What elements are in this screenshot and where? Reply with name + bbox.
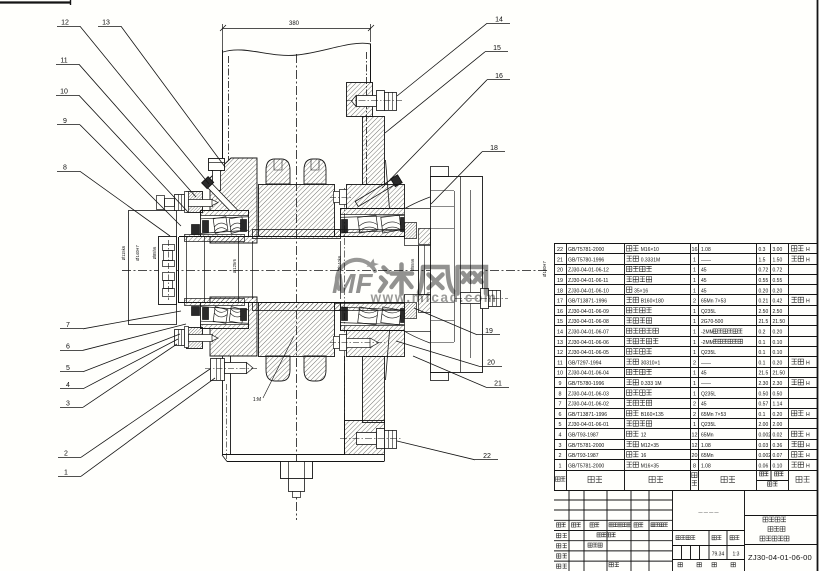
sprocket lower half (section)	[259, 303, 335, 357]
svg-text:10: 10	[60, 89, 68, 96]
title block right: part name	[763, 517, 768, 522]
svg-text:12: 12	[692, 433, 698, 439]
spacer sleeve lower	[253, 303, 341, 311]
svg-text:1: 1	[693, 278, 696, 284]
right flange stem lower (section)	[363, 357, 385, 423]
sheet right border	[817, 0, 819, 571]
svg-text:H: H	[806, 453, 810, 459]
svg-text:0.002: 0.002	[759, 453, 772, 459]
svg-text:21.50: 21.50	[773, 371, 786, 377]
housing bottom plate	[222, 454, 345, 456]
svg-text:ZJ30-04-01-06-03: ZJ30-04-01-06-03	[568, 391, 609, 397]
svg-text:ZJ30-04-01-06-06: ZJ30-04-01-06-06	[568, 340, 609, 346]
svg-text:M16×35: M16×35	[641, 463, 659, 469]
svg-text:21: 21	[557, 257, 563, 263]
svg-text:ZJ30-04-01-06-07: ZJ30-04-01-06-07	[568, 330, 609, 336]
tube right wall	[370, 44, 372, 83]
svg-text:Q235L: Q235L	[701, 422, 716, 428]
svg-text:1: 1	[693, 391, 696, 397]
svg-text:45: 45	[701, 371, 707, 377]
svg-text:0.1: 0.1	[759, 350, 766, 356]
svg-text:——: ——	[701, 257, 711, 263]
svg-text:380: 380	[289, 21, 300, 27]
svg-text:13: 13	[102, 20, 110, 27]
shaft end retaining plate (item 8)	[159, 237, 177, 305]
left bearing housing phantom outline	[129, 211, 177, 325]
mid-right cover bolt	[455, 289, 508, 309]
svg-text:1: 1	[693, 422, 696, 428]
svg-text:Q235L: Q235L	[701, 309, 716, 315]
svg-text:M16×10: M16×10	[641, 247, 659, 253]
svg-text:GB/T5781-2000: GB/T5781-2000	[568, 443, 604, 449]
centerline horizontal	[122, 270, 549, 272]
svg-text:1: 1	[693, 309, 696, 315]
flange cone silhouette curves	[394, 197, 430, 216]
svg-text:3.00: 3.00	[773, 247, 783, 253]
inner ring strip right upper	[335, 230, 419, 237]
svg-text:— — — —: — — — —	[698, 510, 719, 515]
dimension 380 top	[223, 28, 371, 30]
flange bolt lower right	[347, 339, 371, 348]
small stud left upper	[157, 196, 165, 210]
svg-text:2G70-500: 2G70-500	[701, 319, 723, 325]
parts table header	[554, 470, 818, 490]
cap bolt upper	[175, 192, 219, 213]
right flange flare upper (section)	[347, 185, 405, 209]
svg-text:65Mn 7×53: 65Mn 7×53	[701, 299, 726, 305]
svg-text:ZJ30-04-01-06-12: ZJ30-04-01-06-12	[568, 268, 609, 274]
svg-text:45: 45	[701, 268, 707, 274]
svg-text:0.1: 0.1	[759, 340, 766, 346]
svg-text:3: 3	[559, 443, 562, 449]
foot bolt bottom right (item 22)	[340, 429, 402, 449]
svg-text:1:3: 1:3	[733, 552, 740, 558]
plate bolt stack lower	[163, 273, 175, 281]
svg-text:20: 20	[487, 360, 495, 367]
svg-text:1: 1	[693, 381, 696, 387]
svg-text:ZJ30-04-01-06-09: ZJ30-04-01-06-09	[568, 309, 609, 315]
svg-text:9: 9	[63, 118, 67, 125]
svg-text:2.30: 2.30	[759, 381, 769, 387]
svg-text:1.08: 1.08	[701, 247, 711, 253]
svg-text:22: 22	[557, 247, 563, 253]
svg-text:14: 14	[495, 17, 503, 24]
svg-text:0.50: 0.50	[759, 391, 769, 397]
svg-text:21.50: 21.50	[773, 319, 786, 325]
svg-text:GB/T93-1987: GB/T93-1987	[568, 453, 599, 459]
svg-text:2.00: 2.00	[773, 422, 783, 428]
flange bolt circle centerline	[344, 188, 346, 452]
watermark MF logo	[332, 259, 379, 300]
bottom center stud (section)	[281, 462, 313, 498]
svg-text:ZJ30-04-01-06-00: ZJ30-04-01-06-00	[748, 553, 812, 562]
svg-text:1: 1	[693, 340, 696, 346]
svg-text:Q235L: Q235L	[701, 391, 716, 397]
svg-text:0.50: 0.50	[773, 391, 783, 397]
svg-text:——: ——	[701, 381, 711, 387]
svg-text:65Mn: 65Mn	[701, 453, 714, 459]
svg-text:0.1: 0.1	[759, 360, 766, 366]
svg-text:20: 20	[557, 268, 563, 274]
left bearing end cap lower (section)	[187, 328, 203, 349]
housing lower-left wall outer face	[222, 356, 224, 455]
svg-text:Q235L: Q235L	[701, 350, 716, 356]
svg-text:ZJ30-04-01-06-01: ZJ30-04-01-06-01	[568, 422, 609, 428]
svg-text:H: H	[806, 381, 810, 387]
right housing foot (section)	[345, 421, 385, 455]
svg-text:17: 17	[557, 299, 563, 305]
svg-text:GB/T5781-2000: GB/T5781-2000	[568, 247, 604, 253]
svg-text:19: 19	[485, 328, 493, 335]
shaft outline	[179, 236, 418, 238]
sprocket tooth top left	[266, 159, 290, 184]
svg-text:Ø180H7: Ø180H7	[542, 261, 547, 277]
svg-text:16: 16	[557, 309, 563, 315]
svg-text:21: 21	[494, 381, 502, 388]
svg-text:2.50: 2.50	[759, 309, 769, 315]
svg-text:0.72: 0.72	[773, 268, 783, 274]
svg-text:B160×180: B160×180	[641, 299, 664, 305]
title block grid	[554, 490, 818, 571]
svg-text:1: 1	[64, 470, 68, 477]
oblique locating pin (item 12)	[202, 177, 245, 221]
oil seal left upper (item 17)	[192, 225, 200, 235]
title block left labels	[557, 523, 561, 527]
svg-text:0.333 1M: 0.333 1M	[641, 381, 662, 387]
svg-text:2.50: 2.50	[773, 309, 783, 315]
svg-text:45: 45	[701, 402, 707, 408]
right tapered roller bearing upper	[341, 209, 409, 237]
svg-text:5: 5	[559, 422, 562, 428]
spacer sleeve upper	[253, 230, 341, 239]
svg-text:0.20: 0.20	[773, 412, 783, 418]
svg-text:2: 2	[559, 453, 562, 459]
left tapered roller bearing upper	[201, 211, 249, 237]
left tapered roller bearing lower	[201, 303, 249, 329]
svg-text:0.002: 0.002	[759, 433, 772, 439]
svg-text:16: 16	[692, 247, 698, 253]
svg-text:ZJ30-04-01-06-04: ZJ30-04-01-06-04	[568, 371, 609, 377]
centerline vertical	[296, 54, 298, 520]
svg-text:0.3331M: 0.3331M	[641, 257, 660, 263]
svg-text:16: 16	[641, 453, 647, 459]
svg-text:1.08: 1.08	[701, 463, 711, 469]
svg-text:16: 16	[495, 73, 503, 80]
svg-text:0.10: 0.10	[773, 340, 783, 346]
watermark char feng	[419, 267, 455, 293]
watermark char wang	[458, 267, 487, 294]
right flange flare lower (section)	[347, 331, 405, 357]
svg-text:19: 19	[557, 278, 563, 284]
housing box inner walls	[344, 356, 346, 455]
svg-text:45: 45	[701, 288, 707, 294]
flange bolt upper right	[334, 192, 340, 203]
svg-text:2: 2	[693, 299, 696, 305]
svg-text:9: 9	[559, 381, 562, 387]
svg-text:M12×35: M12×35	[641, 443, 659, 449]
svg-text:6: 6	[66, 344, 70, 351]
svg-text:2: 2	[693, 402, 696, 408]
svg-text:12: 12	[692, 443, 698, 449]
svg-text:11: 11	[557, 360, 563, 366]
svg-text:ZJ30-04-01-06-11: ZJ30-04-01-06-11	[568, 278, 609, 284]
inner ring strip upper	[185, 235, 245, 242]
sprocket upper half (section)	[259, 185, 335, 237]
svg-text:ZJ30-04-01-06-02: ZJ30-04-01-06-02	[568, 402, 609, 408]
svg-text:H: H	[806, 360, 810, 366]
svg-text:1: 1	[693, 319, 696, 325]
svg-text:1: 1	[693, 350, 696, 356]
svg-text:Ø85h6: Ø85h6	[152, 246, 157, 259]
svg-text:8: 8	[63, 165, 67, 172]
svg-text:1:M: 1:M	[253, 397, 261, 403]
shaft end rings	[419, 229, 431, 245]
oil seal left lower	[192, 307, 200, 316]
svg-text:30310×1: 30310×1	[641, 360, 661, 366]
svg-text:12: 12	[61, 20, 69, 27]
svg-text:1: 1	[559, 463, 562, 469]
svg-text:0.02: 0.02	[773, 433, 783, 439]
svg-text:18: 18	[557, 288, 563, 294]
svg-text:4: 4	[66, 382, 70, 389]
top-left corner mark	[0, 1, 71, 3]
svg-text:H: H	[806, 299, 810, 305]
sprocket tooth bottom left	[266, 356, 290, 381]
upper left housing wall (section)	[210, 158, 257, 243]
lower left housing wall (section)	[210, 297, 257, 356]
svg-text:-2MM: -2MM	[701, 340, 714, 346]
svg-text:1.5: 1.5	[759, 257, 766, 263]
svg-text:Ø125r6: Ø125r6	[232, 258, 237, 273]
watermark char mu	[380, 265, 412, 294]
lower-left bolt (items 1,2)	[205, 358, 258, 381]
svg-text:GB/T13871-1996: GB/T13871-1996	[568, 412, 607, 418]
svg-text:GB/T5781-2000: GB/T5781-2000	[568, 463, 604, 469]
svg-text:0.10: 0.10	[773, 350, 783, 356]
svg-text:B160×135: B160×135	[641, 412, 664, 418]
svg-text:H: H	[806, 412, 810, 418]
svg-text:79.34: 79.34	[712, 552, 725, 558]
svg-text:21.5: 21.5	[759, 319, 769, 325]
sprocket tooth top right	[304, 159, 326, 184]
svg-text:35×16: 35×16	[634, 288, 648, 294]
cap bolt lower (items 3-6)	[175, 327, 219, 348]
tube left wall	[222, 50, 224, 158]
svg-text:GB/T5780-1996: GB/T5780-1996	[568, 381, 604, 387]
svg-text:6: 6	[559, 412, 562, 418]
svg-text:0.10: 0.10	[773, 463, 783, 469]
svg-text:2.30: 2.30	[773, 381, 783, 387]
svg-text:20: 20	[692, 453, 698, 459]
flange bolt top right (item 14)	[346, 91, 402, 111]
svg-text:7: 7	[559, 402, 562, 408]
svg-text:0.36: 0.36	[773, 443, 783, 449]
svg-text:1.50: 1.50	[773, 257, 783, 263]
tube break wavy top edge	[223, 43, 371, 55]
svg-text:1: 1	[693, 288, 696, 294]
svg-text:4: 4	[559, 433, 562, 439]
svg-text:Ø55n6: Ø55n6	[410, 258, 415, 271]
svg-text:22: 22	[483, 453, 491, 460]
svg-text:0.1: 0.1	[759, 412, 766, 418]
svg-text:21.5: 21.5	[759, 371, 769, 377]
bearing retainer rings right	[405, 209, 431, 246]
svg-text:12: 12	[641, 433, 647, 439]
svg-text:13: 13	[557, 340, 563, 346]
svg-text:GB/T5780-1996: GB/T5780-1996	[568, 257, 604, 263]
svg-text:GB/T297-1994: GB/T297-1994	[568, 360, 602, 366]
svg-text:ZJ30-04-01-06-08: ZJ30-04-01-06-08	[568, 319, 609, 325]
svg-text:H: H	[806, 257, 810, 263]
svg-text:65Mn 7×53: 65Mn 7×53	[701, 412, 726, 418]
svg-text:1.08: 1.08	[701, 443, 711, 449]
right tapered roller bearing lower	[341, 303, 409, 331]
sprocket tooth bottom right	[304, 356, 326, 381]
parts table grid	[554, 244, 818, 471]
svg-text:0.07: 0.07	[773, 453, 783, 459]
right flange top plate (section)	[347, 83, 373, 117]
svg-text:0.2: 0.2	[759, 330, 766, 336]
svg-text:3: 3	[66, 401, 70, 408]
svg-text:H: H	[806, 443, 810, 449]
left bearing end cap upper (section)	[187, 192, 203, 213]
svg-text:8: 8	[693, 463, 696, 469]
svg-text:5: 5	[66, 365, 70, 372]
svg-text:0.03: 0.03	[759, 443, 769, 449]
plate bolt stack upper	[163, 245, 175, 251]
svg-text:0.72: 0.72	[759, 268, 769, 274]
svg-text:H: H	[806, 433, 810, 439]
svg-text:0.3: 0.3	[759, 247, 766, 253]
svg-text:0.55: 0.55	[773, 278, 783, 284]
plate bolt axis	[168, 240, 170, 300]
svg-text:18: 18	[490, 145, 498, 152]
svg-text:2: 2	[64, 451, 68, 458]
svg-text:8: 8	[559, 391, 562, 397]
svg-text:1: 1	[693, 257, 696, 263]
svg-text:0.55: 0.55	[759, 278, 769, 284]
svg-text:1: 1	[693, 268, 696, 274]
svg-text:GB/T93-1987: GB/T93-1987	[568, 433, 599, 439]
svg-text:Ø115k6: Ø115k6	[121, 245, 126, 260]
svg-text:65Mn: 65Mn	[701, 433, 714, 439]
svg-text:1: 1	[693, 371, 696, 377]
svg-text:2.00: 2.00	[759, 422, 769, 428]
svg-text:2: 2	[693, 412, 696, 418]
inner ring strip right lower	[335, 304, 419, 311]
svg-text:H: H	[806, 247, 810, 253]
svg-text:0.42: 0.42	[773, 299, 783, 305]
svg-text:14: 14	[557, 330, 563, 336]
svg-text:ZJ30-04-01-06-05: ZJ30-04-01-06-05	[568, 350, 609, 356]
upper right oblique pin (item 18 area)	[355, 175, 402, 208]
svg-text:0.20: 0.20	[773, 360, 783, 366]
svg-text:2: 2	[693, 360, 696, 366]
svg-text:Ø140H7: Ø140H7	[135, 245, 140, 261]
svg-text:0.57: 0.57	[759, 402, 769, 408]
svg-text:15: 15	[557, 319, 563, 325]
svg-text:0.20: 0.20	[773, 330, 783, 336]
svg-text:0.20: 0.20	[773, 288, 783, 294]
svg-text:7: 7	[66, 322, 70, 329]
svg-text:0.06: 0.06	[759, 463, 769, 469]
svg-text:ZJ30-04-01-06-10: ZJ30-04-01-06-10	[568, 288, 609, 294]
svg-text:MF: MF	[332, 268, 373, 299]
svg-text:45: 45	[701, 278, 707, 284]
top flange bolt left (item 13)	[209, 159, 225, 191]
svg-text:-2MM: -2MM	[701, 330, 714, 336]
svg-text:10: 10	[557, 371, 563, 377]
right flange stem upper (section)	[363, 117, 385, 185]
svg-text:1.14: 1.14	[773, 402, 783, 408]
inner ring strip lower	[185, 299, 245, 306]
svg-text:0.20: 0.20	[759, 288, 769, 294]
svg-text:H: H	[806, 463, 810, 469]
svg-text:12: 12	[557, 350, 563, 356]
right cover plate	[431, 177, 483, 373]
svg-text:——: ——	[701, 360, 711, 366]
svg-text:1: 1	[693, 330, 696, 336]
svg-text:0.21: 0.21	[759, 299, 769, 305]
svg-text:11: 11	[60, 58, 67, 65]
svg-text:www.mfcad.com: www.mfcad.com	[370, 290, 498, 305]
svg-text:15: 15	[493, 45, 501, 52]
svg-text:GB/T13871-1996: GB/T13871-1996	[568, 299, 607, 305]
